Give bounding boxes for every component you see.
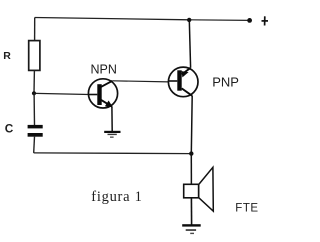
svg-text:R: R [3,50,11,62]
positive terminal dot [247,18,252,23]
wire resistor to base node [33,71,35,94]
speaker FTE [184,167,214,211]
resistor R [29,41,40,71]
svg-text:figura 1: figura 1 [91,189,142,205]
svg-text:C: C [5,122,14,136]
node supply junction [187,18,191,22]
wire junction down to speaker [190,154,192,185]
node speaker junction [189,151,193,155]
node base junction [32,91,36,95]
wire supply junction down to PNP emitter [189,20,190,68]
ground under NPN [104,131,120,138]
svg-text:PNP: PNP [212,74,239,89]
wire bottom horizontal [34,152,192,155]
label + [262,16,269,25]
wire NPN emitter down [111,107,113,132]
svg-text:NPN: NPN [91,63,117,77]
wire NPN collector to PNP base [112,81,168,82]
svg-text:FTE: FTE [235,203,258,215]
wire top rail right segment [189,19,249,22]
wire speaker down to ground [190,198,192,225]
wire top rail left segment [35,18,190,20]
wire capacitor down to corner [33,137,36,153]
transistor Q2 PNP [168,67,198,97]
ground under speaker [182,224,201,234]
wire PNP collector down to speaker junction [190,96,193,154]
wire left vertical to resistor [34,18,36,41]
wire base to NPN [36,93,89,94]
wire base node down to capacitor [33,93,35,125]
transistor Q1 NPN [88,79,117,108]
capacitor C [28,125,43,137]
